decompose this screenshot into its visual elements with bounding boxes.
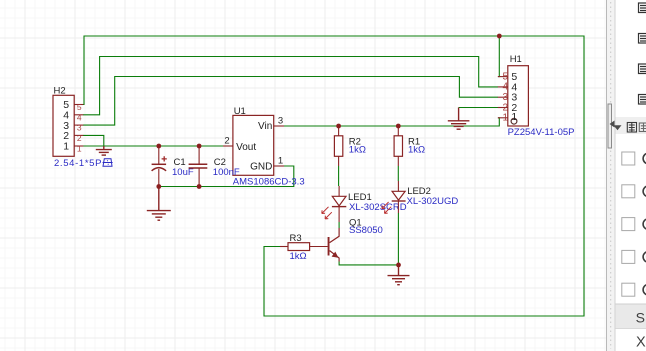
wire R1 bottom to LED2 anode (397, 166, 399, 181)
svg-text:H1: H1 (510, 54, 522, 65)
R2 bottom lead (338, 156, 340, 166)
C2 bottom lead (198, 168, 200, 187)
H2 body (53, 95, 74, 156)
wire net R3DRIVE: H2 pin5 stub, up, top rail, right rail, bottom rail, up to R3 left (83, 36, 584, 316)
junction C2 top on VCC rail (197, 144, 202, 149)
junction C2 bottom on GND rail (197, 184, 202, 189)
svg-text:AMS1086CD-3.3: AMS1086CD-3.3 (233, 176, 305, 187)
R2 body (334, 136, 342, 157)
junction C1 bottom on GND rail (156, 184, 161, 189)
svg-text:1: 1 (511, 111, 517, 123)
svg-text:R3: R3 (290, 233, 302, 244)
right sidebar UI panel (607, 0, 646, 351)
C1 polarity plus sign (162, 156, 167, 161)
junction C1 top on VCC rail (156, 144, 161, 149)
LED1 cathode bar (332, 206, 346, 208)
svg-text:Vout: Vout (236, 142, 256, 153)
svg-text:100nF: 100nF (213, 167, 240, 178)
ground at H1 pin2 (448, 108, 470, 130)
LED2 emission arrows (382, 202, 391, 213)
svg-text:5: 5 (77, 102, 82, 112)
R3 body (288, 243, 310, 251)
R1 top lead (397, 126, 399, 136)
Q1 emitter arrowhead (332, 252, 339, 258)
capacitor C2 (189, 146, 240, 187)
LED2 (382, 181, 458, 213)
ground at H2 pin2 (96, 146, 112, 155)
H2 pin stubs 5,4,3,2,1 (74, 105, 83, 147)
R1 body (394, 136, 402, 157)
svg-text:3: 3 (77, 123, 82, 133)
LED2 anode lead (397, 181, 399, 191)
wire Q1 emitter to ground junction (339, 262, 398, 265)
connector H2 (53, 86, 113, 170)
svg-text:4: 4 (77, 112, 82, 122)
R3 left lead (280, 246, 288, 248)
svg-text:1: 1 (503, 113, 509, 124)
svg-text:U1: U1 (234, 106, 246, 117)
H1 pin names 5,4,3,2,1 (511, 71, 517, 123)
wire net2: H2 pin4 to H1 pin4 (83, 57, 498, 115)
svg-text:PZ254V-11-05P: PZ254V-11-05P (508, 127, 575, 138)
wire net GND: U1 GND pin to capacitor bottom rail (159, 166, 294, 187)
LED2 cathode bar (392, 200, 406, 202)
LED1 emission arrows (322, 207, 332, 219)
LED1 anode lead (338, 186, 340, 196)
connector H1 (498, 54, 575, 138)
svg-text:1kΩ: 1kΩ (290, 251, 307, 262)
H1 pin1 circle indicator (511, 118, 517, 124)
LED1 (322, 186, 407, 222)
C2 top lead (198, 146, 200, 164)
Q1 base lead (310, 246, 328, 248)
ground at Q1 emitter junction (388, 265, 410, 285)
regulator U1 (223, 106, 305, 188)
LED2 cathode lead (397, 201, 399, 213)
Q1 base bar (328, 237, 330, 256)
C1 curved plate (152, 168, 167, 171)
svg-text:XL-302UGD: XL-302UGD (407, 196, 459, 207)
LED1 cathode lead (338, 207, 340, 222)
wire R2 bottom to LED1 anode (338, 166, 340, 186)
LED2 triangle (392, 191, 405, 200)
svg-text:X: X (636, 335, 646, 351)
wire LED2 cathode down to ground junction (397, 213, 399, 265)
resistor R3 (280, 233, 310, 262)
Q1 collector (330, 228, 340, 243)
wire net3: H2 pin3 to H1 pin3 (83, 77, 498, 126)
Q1 emitter (330, 251, 340, 262)
wire branch from top rail junction down to H1 pin5 (498, 36, 499, 77)
svg-text:1: 1 (63, 141, 69, 153)
C2 plates (189, 163, 208, 165)
svg-text:Vin: Vin (258, 121, 272, 132)
C1 top lead (158, 146, 160, 164)
svg-text:2: 2 (224, 136, 229, 147)
transistor Q1 (310, 217, 383, 261)
svg-text:GND: GND (250, 161, 272, 172)
H1 body (508, 66, 529, 126)
svg-text:S: S (636, 310, 645, 326)
junction R1 top on +3V3 rail (396, 124, 401, 129)
capacitor C1 (152, 146, 194, 187)
svg-text:SS8050: SS8050 (349, 225, 383, 236)
junction on top rail to H1 pin5 (497, 34, 502, 39)
resistor R1 (394, 126, 425, 166)
H2 pin numbers 5,4,3,2,1 (77, 102, 82, 154)
wire H2 pin2 to ground (83, 135, 104, 146)
U1 body (233, 115, 274, 175)
svg-text:3: 3 (278, 115, 283, 126)
resistor R2 (334, 126, 366, 166)
R2 top lead (338, 126, 340, 136)
C1 straight plate (152, 163, 167, 165)
svg-text:1: 1 (278, 155, 283, 166)
svg-text:H2: H2 (54, 86, 66, 97)
H1 pin stubs 5,4,3,2,1 (498, 77, 508, 118)
H1 pin numbers 5,4,3,2,1 (503, 71, 509, 123)
junction R2 top on +3V3 rail (336, 124, 341, 129)
LED1 triangle (332, 196, 346, 206)
ground below C1 (147, 187, 171, 221)
U1 pin stubs: Vin(3), Vout(2), GND(1) (223, 126, 284, 166)
H2 pin names 5,4,3,2,1 (63, 99, 69, 152)
wire LED1 cathode to Q1 collector (338, 222, 340, 228)
wire net +3V3: U1 Vin rail to H1 pin1 (284, 118, 499, 126)
svg-text:2.54-1*5P: 2.54-1*5P (54, 158, 102, 169)
svg-text:1: 1 (77, 144, 82, 154)
C1 bottom lead (158, 169, 160, 187)
svg-text:1kΩ: 1kΩ (349, 145, 366, 156)
wire net VCC: H2 pin1 to U1 Vout (83, 145, 224, 147)
svg-text:2: 2 (77, 133, 82, 143)
wire H1 pin2 to ground (459, 107, 498, 109)
svg-text:1kΩ: 1kΩ (408, 145, 425, 156)
junction Q1 emitter / LED2 / ground (396, 263, 401, 268)
R1 bottom lead (397, 156, 399, 166)
